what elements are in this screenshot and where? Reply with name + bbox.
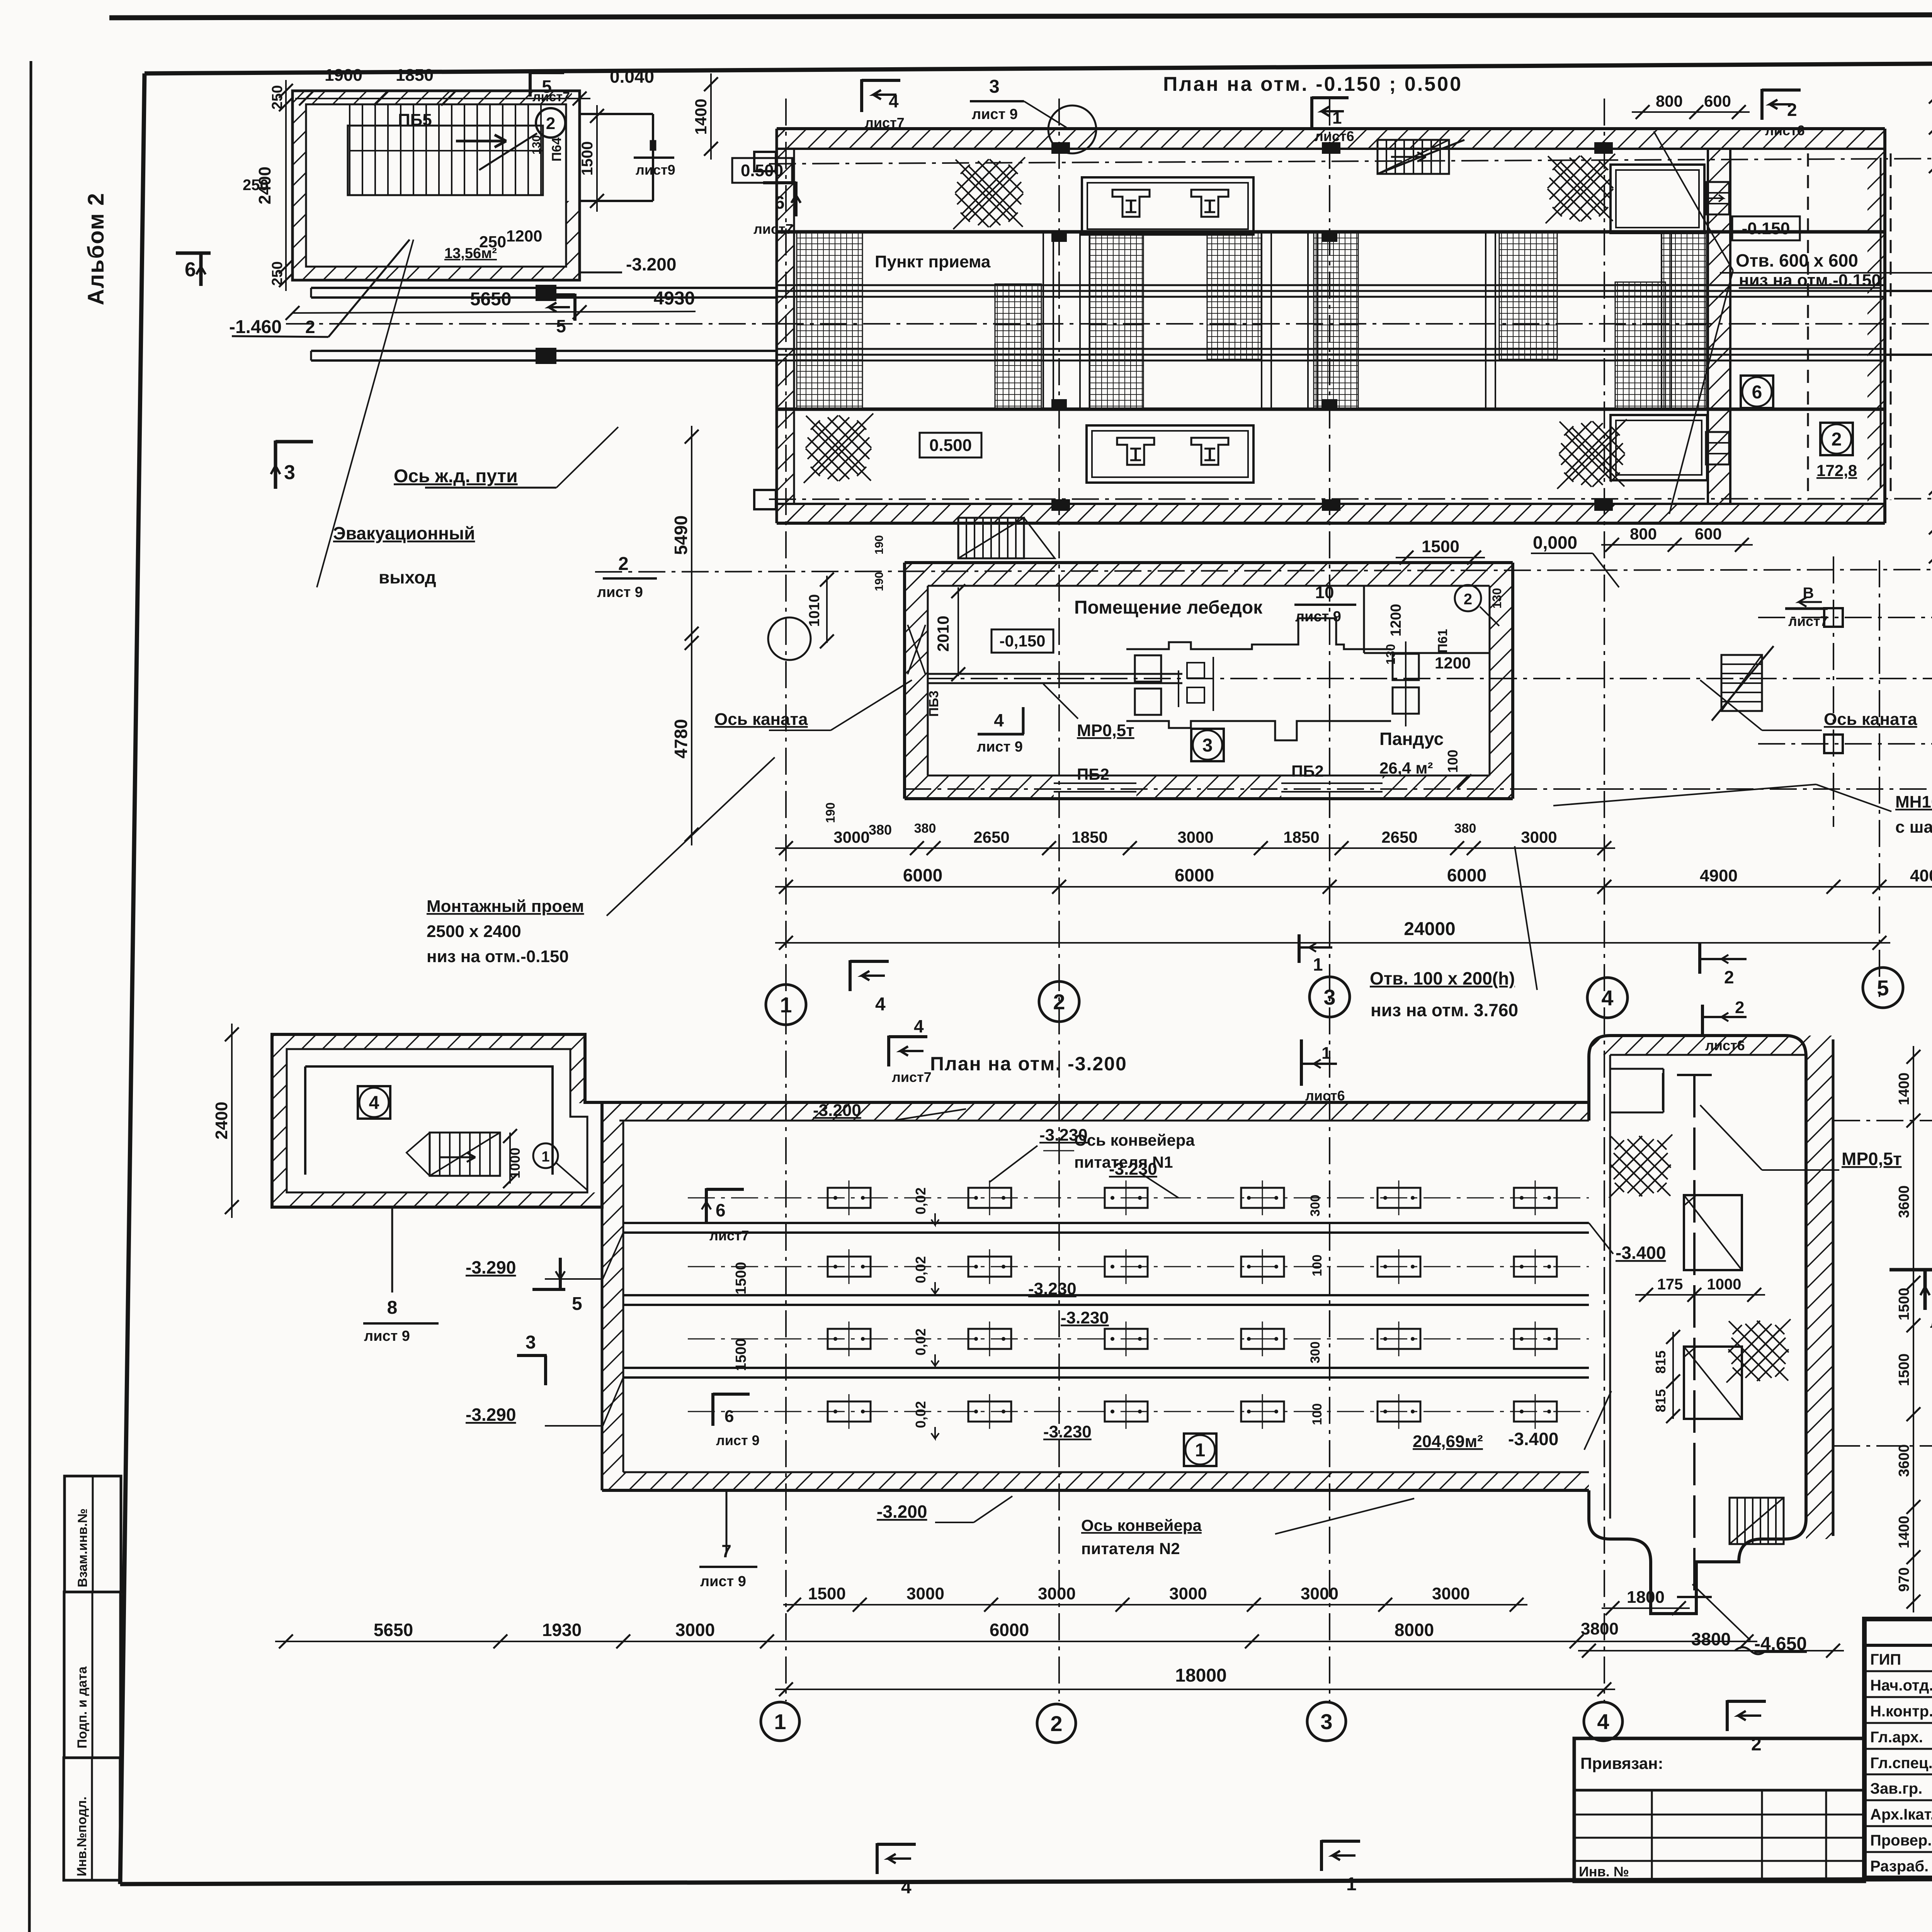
svg-text:низ на отм.-0.150: низ на отм.-0.150 (427, 947, 569, 966)
svg-text:1400: 1400 (692, 99, 710, 134)
svg-text:5650: 5650 (470, 289, 512, 310)
right side dims of bottom plan (1913, 1046, 1914, 1612)
rail 2 double line (311, 350, 777, 352)
svg-text:204,69м²: 204,69м² (1413, 1432, 1483, 1451)
L-room wall hatch right (570, 1049, 585, 1103)
L-room wall hatch top (272, 1034, 585, 1049)
svg-text:130: 130 (1490, 588, 1504, 609)
lane separator 1 (623, 1222, 1589, 1224)
dim 800 600 top (1632, 111, 1750, 113)
leader lines for otv (1654, 131, 1733, 270)
stair plan wall hatch left (293, 91, 306, 280)
svg-text:лист 9: лист 9 (364, 1328, 410, 1344)
dim 4780 vertical left (691, 632, 692, 845)
pit pier lines (1043, 232, 1044, 409)
svg-text:-3.200: -3.200 (813, 1101, 861, 1120)
svg-text:2: 2 (1464, 591, 1472, 608)
equipment box lower (I-beams) (1087, 425, 1253, 483)
svg-text:18000: 18000 (1175, 1665, 1226, 1686)
svg-text:Подп. и дата: Подп. и дата (75, 1666, 90, 1748)
svg-text:3000: 3000 (906, 1584, 944, 1603)
top plan bottom wall (777, 504, 1885, 523)
top plan left wall pilasters (754, 152, 776, 171)
title block outer (1864, 1619, 1932, 1878)
svg-text:лист 9: лист 9 (977, 739, 1023, 755)
main frame top (145, 60, 1932, 73)
svg-text:В: В (1803, 585, 1814, 602)
svg-text:1400: 1400 (1896, 1073, 1912, 1105)
svg-text:0,02: 0,02 (913, 1401, 929, 1428)
flag 6 list7 (705, 1188, 708, 1223)
svg-text:Взам.инв.№: Взам.инв.№ (75, 1509, 90, 1587)
pit top-left sub room (1609, 1068, 1663, 1070)
svg-text:Монтажный проем: Монтажный проем (427, 897, 584, 916)
svg-text:100: 100 (1445, 750, 1461, 773)
svg-text:Провер.: Провер. (1870, 1832, 1932, 1849)
svg-text:3: 3 (1323, 985, 1335, 1009)
svg-text:ПБ3: ПБ3 (927, 690, 941, 717)
L-room inner outline (287, 1049, 587, 1192)
equipment box upper (I-beams) (1082, 177, 1253, 235)
dim chain 1 right part 4900 4000 4000 (1594, 886, 1932, 888)
svg-text:лист 9: лист 9 (597, 584, 643, 600)
small room top right of winch room (1363, 586, 1365, 653)
grid circles 1-5 middle row (766, 985, 806, 1025)
stair plan right extension (580, 113, 653, 115)
svg-text:3: 3 (989, 77, 1000, 97)
svg-text:175: 175 (1657, 1276, 1683, 1293)
pit room outer wall (1589, 1036, 1806, 1614)
pit stair bottom (1730, 1498, 1784, 1544)
grid axis line 3 (1329, 99, 1330, 1701)
right end bin lower (1611, 415, 1707, 480)
flag 2 bottom (1726, 1700, 1729, 1731)
lane separator 2 (623, 1294, 1589, 1296)
svg-text:План на отм. -3.200: План на отм. -3.200 (930, 1053, 1127, 1075)
stair right of winch room (1721, 655, 1762, 711)
svg-text:815: 815 (1653, 1350, 1668, 1374)
chain 18000 (775, 1689, 1615, 1690)
svg-text:2650: 2650 (1381, 828, 1417, 846)
svg-text:Отв. 600 х 600: Отв. 600 х 600 (1736, 250, 1858, 270)
svg-text:5: 5 (556, 316, 566, 336)
section flags top of plan (860, 79, 863, 112)
svg-text:3000: 3000 (1521, 828, 1557, 846)
svg-text:600: 600 (1704, 92, 1731, 110)
columns row 1 (1824, 608, 1843, 627)
svg-text:2: 2 (1053, 990, 1065, 1014)
top plan left wall (777, 129, 794, 523)
svg-text:6: 6 (1752, 382, 1762, 403)
svg-text:10: 10 (1315, 583, 1334, 602)
column grid horizontal lines (1758, 617, 1932, 618)
flag 1 lower mid (1320, 1840, 1323, 1871)
grid axis A horizontal (904, 788, 1932, 790)
svg-text:4780: 4780 (671, 719, 691, 759)
dim 5650 4930 under stair plan (293, 311, 696, 313)
svg-text:4: 4 (1597, 1709, 1609, 1734)
svg-text:Ось конвейера: Ось конвейера (1081, 1516, 1202, 1534)
svg-text:лист 9: лист 9 (1295, 609, 1341, 625)
label -0.150 box (1732, 216, 1800, 240)
svg-text:4: 4 (875, 994, 886, 1015)
svg-text:лист6: лист6 (1765, 122, 1805, 138)
svg-text:2500 х 2400: 2500 х 2400 (427, 922, 521, 941)
dim 2400 left (231, 1024, 233, 1218)
node 1 box bottom plan (1184, 1434, 1216, 1466)
bottom plan left wall (602, 1102, 623, 1490)
svg-text:2: 2 (546, 114, 555, 133)
rail axis dash-dot (286, 323, 777, 325)
svg-text:лист7: лист7 (865, 115, 905, 131)
flag 5 bottom-left (559, 1258, 562, 1291)
svg-text:1010: 1010 (806, 594, 823, 627)
section flags mid row 4 and 1 (849, 960, 852, 991)
svg-text:250: 250 (269, 85, 286, 109)
svg-text:0,000: 0,000 (1533, 532, 1577, 553)
bottom dims chains (783, 1604, 1527, 1605)
svg-text:-0,150: -0,150 (999, 632, 1045, 650)
bottom plan top wall (602, 1102, 1589, 1121)
bottom plan bottom wall (623, 1472, 1589, 1490)
rope channel lines (927, 673, 1182, 675)
svg-text:4: 4 (914, 1016, 924, 1036)
detail circle bottom left (768, 617, 811, 660)
svg-text:2400: 2400 (212, 1102, 231, 1139)
section flag 5 bottom (573, 294, 577, 321)
svg-text:-3.230: -3.230 (1028, 1279, 1077, 1298)
svg-text:1500: 1500 (733, 1338, 749, 1371)
node square 6 (1741, 376, 1773, 408)
L-room wall hatch left (272, 1049, 287, 1207)
x patch lower band 1 (804, 413, 873, 483)
flag 4 list9 (978, 733, 1024, 736)
stair mid landing line (350, 150, 543, 151)
node 4 box (358, 1086, 390, 1119)
svg-text:МР0,5т: МР0,5т (1842, 1149, 1901, 1169)
svg-text:0,02: 0,02 (913, 1187, 929, 1214)
svg-text:3000: 3000 (1038, 1584, 1076, 1603)
svg-text:Гл.спец.: Гл.спец. (1870, 1755, 1932, 1772)
svg-text:3000: 3000 (1301, 1584, 1338, 1603)
svg-text:2: 2 (1787, 100, 1797, 120)
dashed opening outline (1807, 153, 1809, 500)
node square 2 (1820, 423, 1853, 455)
svg-text:1900: 1900 (325, 66, 362, 85)
svg-text:3: 3 (1202, 735, 1213, 756)
flag 2 list6 pit top (1698, 943, 1701, 974)
svg-text:0,02: 0,02 (913, 1256, 929, 1283)
grid axis G horizontal (769, 156, 1932, 164)
sheet outer left border (29, 61, 31, 1932)
svg-text:0.040: 0.040 (610, 66, 654, 87)
svg-text:1500: 1500 (808, 1584, 846, 1603)
svg-text:1: 1 (1332, 109, 1342, 128)
svg-text:лист 9: лист 9 (972, 106, 1018, 122)
svg-text:6: 6 (775, 192, 785, 213)
dims 175 1000 (1635, 1294, 1765, 1296)
right end inner vertical (1880, 158, 1882, 488)
winch room bottom wall sills (1054, 782, 1136, 784)
stair symbol above middle plan (958, 518, 1024, 558)
svg-text:Зав.гр.: Зав.гр. (1870, 1780, 1922, 1797)
flag 2 list6 mid lower (1701, 1005, 1704, 1035)
svg-text:4: 4 (901, 1877, 912, 1898)
grid axis line 2 (1058, 99, 1060, 1701)
right end stair upper (1706, 182, 1729, 214)
dim 1500 vertical right (596, 105, 598, 212)
step wall at x4420 (1708, 149, 1730, 504)
lane separator 3 (623, 1367, 1589, 1369)
stamp box podp i data (64, 1592, 121, 1758)
svg-text:Привязан:: Привязан: (1580, 1754, 1663, 1772)
section mark 3 left rail (274, 440, 277, 489)
pit band lower edge (777, 408, 1885, 411)
svg-text:3000: 3000 (833, 828, 869, 846)
svg-text:П61: П61 (1435, 629, 1450, 653)
flag 4 list7 bottom title (887, 1036, 890, 1066)
svg-text:1000: 1000 (1707, 1276, 1742, 1293)
svg-text:П64: П64 (549, 138, 564, 162)
pit crosshatch group (797, 232, 862, 409)
svg-text:2: 2 (1832, 429, 1842, 450)
svg-text:2: 2 (1050, 1711, 1062, 1736)
svg-text:1850: 1850 (396, 66, 434, 85)
conveyor plates (688, 1197, 1589, 1199)
svg-text:1: 1 (1346, 1874, 1357, 1895)
L-room inner room line (305, 1066, 553, 1175)
svg-text:100: 100 (1310, 1255, 1325, 1277)
svg-text:5490: 5490 (671, 515, 691, 555)
winch room right wall (1490, 563, 1513, 799)
grid axis line 5 (1879, 560, 1880, 997)
svg-text:выход: выход (379, 567, 436, 587)
svg-text:1500: 1500 (1896, 1354, 1912, 1386)
flag 2 list6 top (1760, 89, 1764, 120)
svg-text:2: 2 (305, 317, 315, 337)
svg-text:лист9: лист9 (636, 162, 675, 178)
L-room stair (430, 1133, 500, 1176)
svg-text:190: 190 (873, 572, 886, 591)
svg-text:1850: 1850 (1071, 828, 1107, 846)
detail circle at axis 3 top (1048, 105, 1096, 153)
svg-text:6000: 6000 (903, 865, 942, 885)
svg-text:ГИП: ГИП (1870, 1651, 1901, 1668)
svg-text:0,02: 0,02 (913, 1328, 929, 1355)
svg-text:100: 100 (1310, 1403, 1325, 1425)
callout circle 2 (536, 108, 565, 138)
svg-text:1500: 1500 (1422, 537, 1459, 556)
svg-text:4: 4 (889, 91, 899, 111)
svg-text:1: 1 (1321, 1044, 1331, 1063)
annex privyazan box (1574, 1738, 1864, 1881)
node 3 (1191, 729, 1224, 761)
svg-text:6: 6 (724, 1407, 734, 1426)
grid axis V horizontal (769, 498, 1932, 499)
svg-text:815: 815 (1653, 1389, 1668, 1412)
svg-text:1850: 1850 (1283, 828, 1319, 846)
bottom grid circles 1-4 (761, 1702, 799, 1741)
svg-text:1500: 1500 (733, 1262, 749, 1295)
svg-text:лист7: лист7 (753, 221, 793, 237)
svg-text:План на отм. -0.150 ; 0.500: План на отм. -0.150 ; 0.500 (1163, 73, 1463, 95)
pit x patch 1 (1609, 1134, 1672, 1198)
pit hopper upper (1684, 1195, 1742, 1270)
stair plan title dims 1900 (295, 98, 590, 99)
svg-text:3000: 3000 (675, 1620, 715, 1640)
svg-text:3600: 3600 (1896, 1444, 1912, 1477)
svg-text:1200: 1200 (1435, 654, 1471, 672)
column grid vertical lines (1833, 556, 1834, 827)
pit x patch 2 (1726, 1319, 1791, 1383)
svg-text:3: 3 (1320, 1709, 1332, 1734)
svg-text:8000: 8000 (1395, 1620, 1434, 1640)
svg-text:1200: 1200 (1388, 604, 1404, 637)
svg-text:Альбом 2: Альбом 2 (83, 192, 109, 305)
dim 1400 left of plan (710, 73, 712, 160)
svg-text:8: 8 (387, 1298, 398, 1318)
svg-text:250: 250 (243, 177, 269, 194)
svg-text:-3.400: -3.400 (1616, 1243, 1666, 1263)
svg-text:6000: 6000 (1175, 865, 1214, 885)
main frame bottom (120, 1877, 1932, 1884)
svg-text:Ось конвейера: Ось конвейера (1074, 1131, 1195, 1149)
svg-text:лист6: лист6 (1315, 128, 1354, 144)
svg-text:3: 3 (526, 1332, 536, 1353)
svg-text:-3.200: -3.200 (626, 254, 676, 274)
svg-text:5: 5 (572, 1294, 582, 1314)
x patch upper band 2 (1546, 154, 1615, 223)
svg-text:2: 2 (1724, 967, 1734, 987)
wall pilasters top (1051, 142, 1070, 154)
right end bin upper (1611, 165, 1704, 233)
grid axis line 1 (785, 99, 787, 1701)
svg-text:5: 5 (1877, 976, 1889, 1000)
svg-text:6: 6 (185, 259, 196, 281)
svg-text:4900: 4900 (1700, 866, 1738, 885)
svg-text:Ось ж.д. пути: Ось ж.д. пути (394, 466, 518, 486)
svg-text:-0.150: -0.150 (1742, 219, 1790, 238)
svg-text:лист7: лист7 (1930, 1315, 1932, 1331)
svg-text:Н.контр.: Н.контр. (1870, 1703, 1932, 1720)
svg-text:3800: 3800 (1691, 1629, 1731, 1649)
rails inside plan (777, 284, 1885, 286)
svg-text:1500: 1500 (579, 141, 596, 176)
svg-text:13,56м²: 13,56м² (444, 245, 497, 262)
dim chain 1 under winch room (775, 847, 1615, 849)
svg-text:ПБ2: ПБ2 (1077, 765, 1109, 783)
pit hopper lower (1684, 1347, 1742, 1419)
svg-text:низ на отм. 3.760: низ на отм. 3.760 (1371, 1000, 1518, 1020)
svg-text:лист 9: лист 9 (700, 1573, 746, 1590)
dim 1800 (1602, 1607, 1690, 1609)
svg-text:-3.400: -3.400 (1508, 1429, 1558, 1449)
svg-text:0.500: 0.500 (929, 436, 972, 455)
svg-text:1: 1 (1313, 954, 1323, 975)
svg-text:6000: 6000 (990, 1620, 1029, 1640)
top plan top wall (777, 129, 1885, 149)
svg-text:-3.230: -3.230 (1043, 1422, 1092, 1441)
flag 3 list7 bottom plan (1889, 1268, 1932, 1272)
svg-text:низ на отм.-0.150: низ на отм.-0.150 (1739, 271, 1881, 290)
flag 6 list 9 rows (711, 1393, 714, 1426)
svg-text:Эвакуационный: Эвакуационный (333, 523, 475, 543)
svg-text:Пандус: Пандус (1379, 729, 1444, 749)
dim 1500 and 0.000 bottom (1396, 557, 1485, 558)
svg-text:190: 190 (873, 535, 886, 554)
svg-text:2: 2 (1751, 1734, 1762, 1755)
stair symbol top right of plan (1378, 140, 1449, 174)
section flag 5 list7 top (529, 71, 532, 97)
pit room axis vertical (1693, 1075, 1696, 1597)
svg-text:600: 600 (1695, 525, 1722, 543)
grid axis B horizontal (595, 569, 1932, 572)
svg-text:1: 1 (541, 1149, 549, 1165)
svg-text:5650: 5650 (374, 1620, 413, 1640)
svg-text:-3.290: -3.290 (466, 1257, 516, 1277)
L-room outer wall (272, 1034, 602, 1207)
top plan right wall (1883, 129, 1886, 523)
svg-text:300: 300 (1308, 1342, 1323, 1364)
svg-text:2010: 2010 (934, 616, 952, 651)
svg-text:4000: 4000 (1910, 866, 1932, 885)
svg-text:Помещение лебедок: Помещение лебедок (1074, 597, 1263, 618)
svg-text:800: 800 (1630, 525, 1657, 543)
dim chain 3 24000 (775, 942, 1890, 944)
svg-text:Нач.отд.: Нач.отд. (1870, 1677, 1932, 1694)
svg-text:ПБ2: ПБ2 (1291, 762, 1324, 780)
pit room inner lines (1610, 1054, 1806, 1056)
pit band upper edge (777, 230, 1885, 234)
dim 3800 bottom (1578, 1650, 1844, 1651)
stair plan wall hatch bottom (306, 267, 572, 280)
floor label 0.500 upper (732, 158, 792, 183)
svg-text:6000: 6000 (1447, 865, 1486, 885)
x patch lower band 2 (1557, 419, 1627, 489)
svg-text:лист6: лист6 (1705, 1037, 1745, 1053)
svg-text:4: 4 (369, 1093, 379, 1113)
svg-text:с шагом 1500 по длине стен: с шагом 1500 по длине стен (1895, 818, 1932, 837)
svg-text:Гл.арх.: Гл.арх. (1870, 1729, 1923, 1746)
svg-text:1500: 1500 (1896, 1288, 1912, 1321)
svg-text:26,4 м²: 26,4 м² (1379, 759, 1433, 777)
rails continue right (1885, 290, 1932, 292)
svg-text:Ось каната: Ось каната (1824, 710, 1917, 729)
rail axis inside plan (777, 323, 1932, 325)
circle 1 small (533, 1143, 558, 1168)
section mark 6 left (199, 252, 203, 286)
stair plan wall hatch top (306, 91, 572, 104)
svg-text:лист7: лист7 (892, 1069, 932, 1085)
pit room right wall hatch (1806, 1036, 1833, 1539)
svg-text:Ось каната: Ось каната (714, 710, 808, 729)
flag 3 small (517, 1354, 547, 1357)
svg-text:4: 4 (994, 710, 1004, 730)
svg-text:1200: 1200 (506, 227, 542, 245)
dim chain 2 6000s (775, 886, 1890, 888)
sheet outer top border (109, 14, 1932, 18)
pit edge pilaster marks (1051, 232, 1067, 242)
L-room wall hatch bottom (287, 1192, 602, 1207)
svg-text:питателя N2: питателя N2 (1081, 1539, 1180, 1558)
right end stair lower (1706, 432, 1729, 464)
svg-text:4: 4 (1601, 986, 1613, 1010)
svg-text:24000: 24000 (1404, 919, 1455, 939)
svg-text:1: 1 (780, 993, 792, 1017)
section flag 6 list7 left (794, 182, 798, 216)
svg-text:300: 300 (1308, 1195, 1323, 1217)
stamp box vzam inv (65, 1476, 121, 1592)
